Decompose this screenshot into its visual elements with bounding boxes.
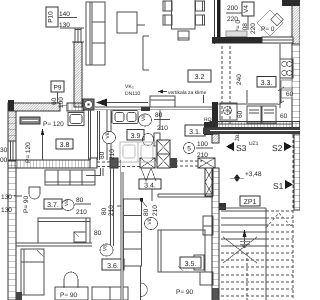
door jamb pier (90, 158, 97, 168)
svg-text:80: 80 (94, 230, 102, 237)
stair cross X (223, 237, 257, 263)
svg-text:UZ1: UZ1 (249, 141, 259, 147)
wall living/hall (95, 107, 213, 160)
V8 circle 3.7 (62, 200, 74, 211)
room label 3.4 (139, 179, 161, 201)
gray shelf (226, 31, 247, 37)
svg-text:S3: S3 (236, 143, 247, 153)
desk 3.6 (55, 287, 88, 300)
RO box (204, 117, 213, 135)
V8 circle 3.9 (139, 114, 152, 126)
left outer wall (rungs) (8, 111, 16, 300)
wall seg dark (141, 107, 150, 112)
level +3.48 (230, 171, 262, 182)
svg-text:V8: V8 (141, 115, 147, 121)
room label 3.7 (44, 199, 62, 209)
svg-text:vertikala za klime: vertikala za klime (168, 90, 207, 96)
wall piers hall/stairs (157, 140, 215, 196)
svg-text:V8: V8 (147, 218, 153, 224)
shaft wall bar (217, 0, 221, 37)
cut dim texts left edge (0, 147, 12, 214)
kitchen bottom wall (210, 122, 300, 128)
dashed beam over corridor (97, 162, 157, 167)
door stub wall (212, 134, 219, 143)
svg-text:P= 90: P= 90 (60, 292, 78, 299)
svg-text:3.7.: 3.7. (47, 202, 59, 209)
svg-text:30: 30 (0, 147, 8, 154)
svg-text:60: 60 (237, 110, 244, 118)
svg-text:V8: V8 (64, 200, 70, 206)
svg-text:130: 130 (1, 194, 12, 201)
column marks living room (143, 36, 149, 70)
svg-text:60: 60 (51, 97, 58, 105)
svg-text:60: 60 (280, 113, 288, 120)
nightstand top 3.5 (203, 216, 213, 235)
washer dryer 3.9 (light) (120, 142, 156, 162)
sofa (86, 2, 105, 65)
sideboard living (150, 96, 175, 107)
svg-text:5: 5 (187, 146, 191, 153)
text VK3 DN110 (125, 84, 140, 97)
dim 200/220 (226, 5, 246, 23)
svg-text:210: 210 (109, 149, 116, 160)
window P10 in wall (60, 28, 84, 43)
svg-text:S1: S1 (273, 181, 284, 191)
pier corridor x-box (140, 158, 155, 168)
svg-text:V4: V4 (243, 5, 250, 13)
rot dims 3.6 door (101, 205, 115, 216)
radiator room 3.8 (20, 117, 40, 124)
dishwasher (247, 106, 276, 123)
room label 3.9 (127, 130, 144, 141)
svg-text:140: 140 (59, 11, 70, 18)
svg-text:210: 210 (152, 205, 159, 216)
pier corridor (110, 158, 118, 168)
svg-text:3.2: 3.2 (195, 74, 205, 81)
chair 3.6 (64, 272, 78, 288)
V8 circle 3.8 (103, 132, 116, 144)
shaft walls (89, 110, 91, 160)
wall left-top vertical (hatched) (74, 42, 82, 107)
room label 3.5 (180, 257, 201, 268)
door label P9 (51, 81, 65, 108)
zigzag break (141, 168, 156, 181)
dim 80/210 door 3.9 (154, 112, 170, 132)
svg-text:3.1.: 3.1. (189, 129, 201, 136)
leader arrow in 3.8 (41, 128, 44, 160)
wall horiz upper-left (hatched) (8, 100, 84, 111)
wall pier kitchen left (212, 102, 218, 134)
toilet 3.9 (143, 133, 161, 146)
top-right corner wall (282, 0, 300, 6)
dim 60/210 door 3.8 (99, 149, 116, 160)
coffee table (117, 12, 145, 33)
svg-text:220: 220 (250, 23, 257, 34)
svg-text:80: 80 (76, 197, 84, 204)
svg-text:3.4.: 3.4. (144, 183, 156, 190)
stairs flight solid (219, 208, 266, 300)
room label 3.2 (188, 70, 211, 82)
svg-text:130: 130 (1, 207, 12, 214)
wall 3.8/shaft (98, 111, 100, 160)
svg-text:3.8: 3.8 (60, 142, 70, 149)
stove (280, 59, 293, 78)
svg-text:P= 120: P= 120 (43, 121, 64, 128)
right wall bathroom (hatch) (292, 0, 300, 44)
svg-text:60: 60 (286, 91, 294, 98)
svg-text:P10: P10 (48, 11, 55, 23)
window label P10 (46, 7, 77, 29)
V8 circle 3.5 (145, 218, 158, 230)
room label 3.8 (56, 139, 73, 149)
svg-text:P9: P9 (54, 85, 62, 92)
rot dims 208 220 (235, 20, 257, 34)
svg-text:00: 00 (0, 157, 8, 164)
dim 60 kitchen (278, 87, 294, 120)
svg-text:DN110: DN110 (125, 91, 140, 97)
interior wall hall (117, 160, 123, 300)
kitchen lower counter (218, 90, 292, 124)
door S2 (272, 142, 292, 153)
bed 3.5 (158, 230, 205, 272)
wall 3.5 top (158, 194, 213, 197)
svg-text:VK₃: VK₃ (125, 84, 134, 90)
svg-text:S2: S2 (272, 143, 283, 153)
stair wall left (212, 168, 219, 300)
bathroom bottom wall (212, 37, 262, 44)
label V4 (242, 2, 254, 30)
entry door S3 (226, 132, 259, 153)
svg-text:ZP1: ZP1 (244, 199, 257, 206)
svg-text:210: 210 (76, 209, 87, 216)
window in left wall (8, 141, 16, 161)
svg-text:200: 200 (227, 5, 238, 12)
wall W4 horizontal (tick hatch) (8, 160, 96, 168)
V8 circle 3.6 (100, 244, 113, 256)
room label 3.3 (257, 77, 276, 88)
svg-text:P= 90: P= 90 (23, 195, 30, 213)
svg-text:V8: V8 (105, 132, 111, 138)
long left arrow (96, 99, 148, 107)
chair 3.7 (29, 187, 40, 199)
rot dims 3.5 door (143, 205, 159, 216)
dining chairs (163, 1, 205, 40)
top bathroom left wall (214, 0, 216, 44)
klima shaft dashed (222, 46, 230, 126)
svg-text:210: 210 (157, 125, 168, 132)
washbasin 3.9 (112, 111, 138, 124)
door S1 (273, 180, 293, 191)
dashed opening (170, 161, 202, 166)
wall nub bottom left (16, 292, 22, 300)
stair center line arrow (240, 229, 250, 248)
text vertikala za klime with arrow (158, 90, 207, 97)
svg-text:V8: V8 (103, 245, 109, 251)
svg-text:3.6.: 3.6. (107, 263, 119, 270)
stair pier black (219, 203, 226, 210)
svg-text:210: 210 (108, 205, 115, 216)
dim 80/210 3.7 (75, 197, 91, 216)
tables bottom 3.6 (92, 287, 128, 300)
svg-text:80: 80 (155, 112, 163, 119)
column with circle (83, 99, 94, 110)
label ZP1 (240, 196, 260, 206)
svg-text:+3,48: +3,48 (245, 171, 262, 178)
svg-text:3.9: 3.9 (131, 133, 141, 140)
svg-text:ŽB2: ŽB2 (234, 132, 241, 141)
svg-text:240: 240 (236, 74, 243, 85)
svg-text:3.3.: 3.3. (261, 80, 273, 87)
svg-text:P= 90: P= 90 (176, 289, 194, 296)
door 5 label (184, 141, 214, 159)
svg-text:80: 80 (101, 207, 108, 215)
sink 3.8 (68, 113, 84, 126)
kitchen right wall (rungs) (292, 44, 300, 134)
svg-text:60: 60 (99, 151, 106, 159)
hall label 3.1 (185, 125, 205, 136)
wall 3.7 right (86, 168, 114, 246)
wardrobe 3.7 (45, 170, 95, 185)
kitchen counter right (280, 44, 292, 108)
svg-text:100: 100 (58, 97, 65, 108)
svg-text:3.5.: 3.5. (185, 261, 197, 268)
shower diamond (257, 10, 283, 36)
nightstand bottom 3.5 (200, 272, 213, 285)
stairs dashed flight (221, 135, 293, 300)
washing machine kitchen (220, 103, 237, 120)
svg-text:100: 100 (197, 141, 208, 148)
bed 3.6 (21, 249, 44, 295)
door bump (141, 283, 148, 297)
right edge wall lower (294, 134, 300, 210)
svg-text:80: 80 (143, 208, 150, 216)
dining table (172, 0, 196, 29)
room label 3.6 (102, 259, 124, 270)
bed 3.7 (38, 218, 90, 243)
leader RO (203, 95, 205, 103)
wall 3.7/3.6 (16, 243, 92, 246)
bathroom window bottom (262, 37, 293, 43)
corridor lines 3.4 bottom (124, 265, 142, 267)
wardrobe 3.6 tall (124, 198, 148, 266)
